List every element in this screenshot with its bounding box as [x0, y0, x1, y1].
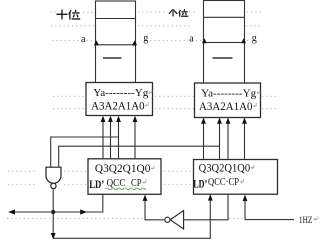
wire NAND output down — [52, 188, 54, 238]
svg-text:QCC: QCC — [107, 178, 126, 189]
arrowhead into DS1 pin g — [132, 40, 137, 45]
wire NAND input 1 from Q1 tens — [51, 137, 119, 167]
arrowhead into LD' units — [208, 194, 213, 200]
decoder U2 (units BCD-7seg) — [195, 83, 261, 118]
dotted gridline row 5 — [53, 108, 279, 110]
inverter G2 (pointing left) — [165, 211, 184, 229]
svg-text:g: g — [143, 33, 148, 44]
arrowhead into CP units — [243, 195, 248, 201]
return mark after A0 (U2) — [254, 103, 257, 107]
wire reset left branch — [10, 211, 53, 213]
arrowhead into DS1 pin a — [94, 40, 99, 45]
dotted gridline row 8 — [7, 217, 319, 219]
svg-text:Q3Q2Q1Q0: Q3Q2Q1Q0 — [95, 162, 151, 175]
wire NAND input 2 from Q2 units — [59, 146, 220, 167]
dotted gridline row 3 — [52, 40, 251, 42]
return mark after A0 (U1) — [146, 103, 149, 107]
wire DS1 left segment feed — [95, 45, 97, 83]
arrowhead into DS2 pin g — [241, 38, 246, 43]
dotted gridline row 7 — [8, 183, 193, 185]
return mark after 1HZ — [314, 217, 317, 221]
wire 1HZ to CP units — [245, 196, 294, 220]
wire reset to LD' tens — [53, 194, 103, 212]
svg-text:g: g — [252, 33, 257, 44]
dotted gridline row 4 — [53, 95, 279, 97]
arrowhead into DS2 pin a — [202, 38, 207, 43]
svg-text:a: a — [189, 33, 194, 44]
return mark after Q0 (U3) — [151, 166, 154, 170]
display DS1 (tens digit) — [96, 1, 136, 45]
svg-text:Q3Q2Q1Q0: Q3Q2Q1Q0 — [199, 163, 251, 175]
wire inverter output to CP tens — [145, 196, 165, 220]
arrowhead into CP tens — [143, 195, 148, 201]
svg-text:QCC·CP: QCC·CP — [208, 177, 239, 188]
wire DS2 right segment feed — [244, 43, 246, 84]
dotted gridline row 6 — [8, 169, 199, 171]
arrowhead A2 (U2) — [217, 118, 222, 124]
wire Q1 units to A1 — [227, 119, 229, 160]
display DS2 (units digit) — [204, 1, 245, 43]
wire Q2 tens to A2 — [110, 117, 112, 159]
arrowhead mid direction — [80, 209, 87, 214]
arrowhead down at bottom branch — [51, 233, 56, 239]
return mark after Yg (U1) — [149, 90, 152, 94]
svg-text:Ya--------Yg: Ya--------Yg — [93, 87, 148, 99]
arrowhead A3 (U2) — [201, 118, 206, 124]
return mark after Q0 (U4) — [251, 165, 254, 169]
decoder U1 (tens BCD-7seg) — [86, 83, 153, 116]
segment dash inside DS1 — [103, 57, 122, 59]
svg-text:A3A2A1A0: A3A2A1A0 — [91, 99, 145, 112]
spellcheck squiggle under QCC CP (U3) — [106, 188, 146, 190]
arrowhead A3 (U1) — [101, 116, 106, 122]
label 十位 (tens) — [57, 10, 81, 20]
svg-text:LD’: LD’ — [193, 176, 207, 190]
wire Q1 tens to A1 — [118, 117, 120, 159]
arrowhead A2 (U1) — [108, 116, 113, 122]
arrowhead A1 (U2) — [226, 118, 231, 124]
svg-text:a: a — [81, 34, 86, 45]
junction node — [51, 210, 55, 214]
return mark after CP (U3) — [143, 180, 146, 184]
wire DS2 left segment feed — [203, 43, 205, 84]
arrowhead A0 (U2) — [242, 118, 247, 124]
dotted gridline row 2 — [51, 25, 261, 27]
wire Q3 units to A3 — [203, 119, 205, 160]
wire carry units to inverter input — [184, 194, 228, 220]
counter U3 (tens) — [88, 159, 161, 195]
arrowhead left end — [8, 209, 15, 214]
wire Q0 units to A0 — [244, 119, 246, 160]
return mark after CP (U4) — [241, 179, 244, 183]
segment dash inside DS2 — [213, 57, 233, 59]
label 个位 (units) — [169, 9, 188, 16]
svg-text:1HZ: 1HZ — [299, 216, 313, 226]
counter U4 (units) — [194, 160, 278, 195]
svg-text:A3A2A1A0: A3A2A1A0 — [199, 100, 253, 113]
NAND gate G1 (pointing down) — [46, 167, 61, 188]
svg-text:CP: CP — [131, 178, 142, 189]
wire Q3 tens to A3 — [102, 117, 104, 159]
dotted gridline row 1 — [50, 11, 261, 14]
wire reset to LD' units along bottom — [53, 195, 210, 238]
wire DS1 right segment feed — [135, 45, 137, 83]
svg-text:LD’: LD’ — [89, 177, 104, 191]
svg-text:Ya--------Yg: Ya--------Yg — [201, 88, 256, 100]
arrowhead A0 (U1) — [133, 116, 138, 122]
return mark after Yg (U2) — [257, 90, 260, 94]
arrowhead A1 (U1) — [116, 116, 121, 122]
wire Q0 tens to A0 — [134, 117, 136, 159]
wire Q2 units to A2 — [219, 119, 221, 160]
